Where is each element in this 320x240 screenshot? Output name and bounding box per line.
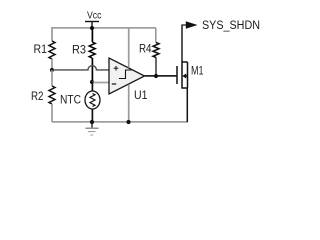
svg-text:R4: R4 [139, 42, 152, 56]
wire source to ground rail [186, 88, 188, 122]
node B junction R3/NTC/-input dot [90, 80, 94, 84]
svg-text:M1: M1 [191, 63, 204, 77]
svg-text:R3: R3 [72, 43, 86, 57]
wire bottom rail ground [52, 121, 188, 123]
ground [86, 122, 99, 135]
node ground junction dot [90, 120, 94, 124]
svg-text:NTC: NTC [60, 92, 81, 106]
svg-text:SYS_SHDN: SYS_SHDN [202, 20, 260, 32]
resistor R1 [49, 27, 55, 70]
thermistor NTC [85, 82, 100, 122]
wire -input [92, 82, 109, 84]
wire op-amp V- supply [128, 85, 130, 123]
wire drain to flag [181, 25, 183, 63]
svg-text:R1: R1 [34, 42, 48, 56]
wire op-amp output to gate [145, 75, 178, 77]
svg-text:U1: U1 [134, 88, 148, 102]
node VCC junction dot [90, 26, 94, 30]
resistor R4 [153, 28, 159, 76]
svg-text:R2: R2 [31, 89, 44, 103]
wire op-amp V+ supply [128, 28, 130, 68]
off-page connector SYS_SHDN [182, 21, 198, 29]
node V- rail junction dot [126, 120, 130, 124]
transistor M1 body arrow [182, 74, 186, 79]
resistor R2 [49, 70, 55, 122]
node A junction R1/R2/+input dot [50, 68, 54, 72]
op-amp U1 [109, 58, 145, 94]
wire top rail Vcc [52, 27, 156, 29]
node output/R4/gate junction dot [154, 74, 158, 78]
svg-text:Vcc: Vcc [87, 11, 102, 22]
transistor M1 [177, 61, 188, 88]
power symbol VCC [85, 22, 99, 29]
wire +input with hop over R3/NTC line [52, 66, 109, 70]
resistor R3 [89, 28, 95, 82]
